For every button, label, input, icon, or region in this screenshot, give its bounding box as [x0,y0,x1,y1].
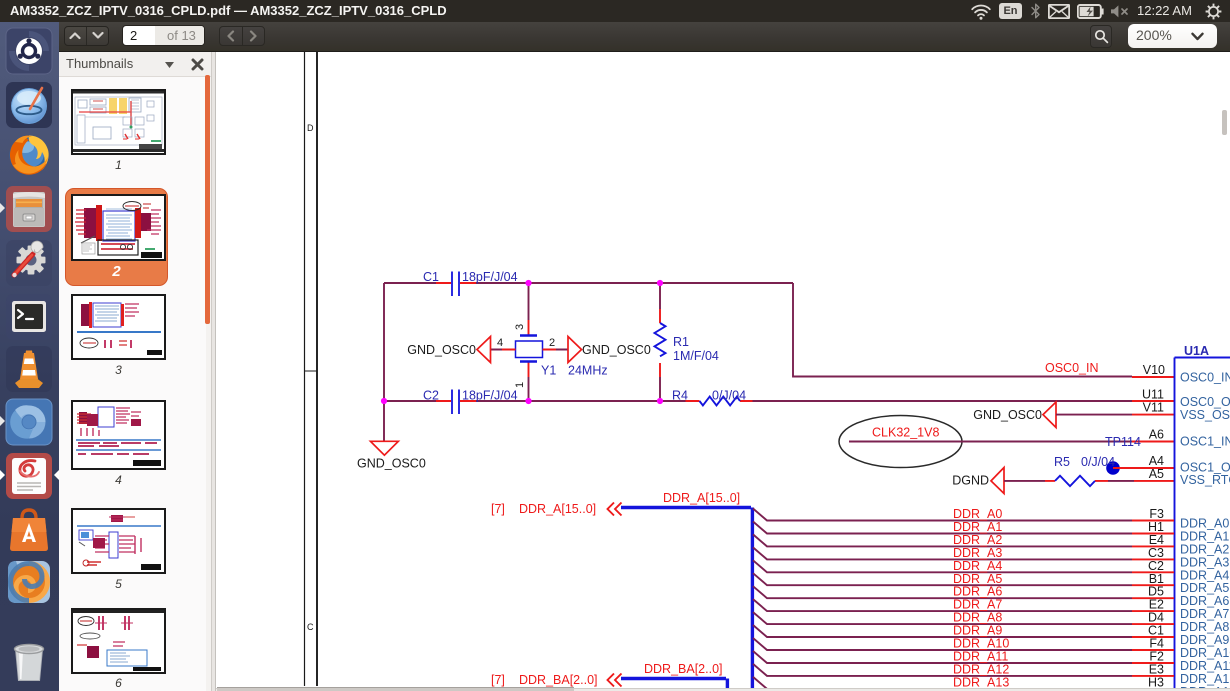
svg-text:F2: F2 [1149,650,1164,664]
wire DDR_A5 branch from bus [753,573,1132,585]
svg-text:[7]: [7] [491,502,505,516]
thumbnail 6 [71,608,166,674]
svg-text:U1A: U1A [1184,344,1209,358]
svg-text:CLK32_1V8: CLK32_1V8 [872,426,939,440]
svg-text:VSS_OSC0: VSS_OSC0 [1180,408,1230,422]
pin D4 DDR_A8 stub [1132,623,1174,625]
zoom dropdown [1128,24,1217,48]
pin H3 DDR_A13 stub [1132,688,1174,690]
thumbnail 2 (selected) [65,188,168,286]
svg-text:C: C [307,622,314,632]
tray: wifi [969,3,993,20]
capacitor C1 [423,270,518,296]
wire DDR_A6 branch from bus [753,586,1132,598]
svg-text:1M/F/04: 1M/F/04 [673,349,719,363]
tray: muted speaker [1110,5,1130,18]
thumbnail 1 [71,89,166,155]
svg-text:DDR_A9: DDR_A9 [1180,633,1229,647]
pin C3 DDR_A3 stub [1132,558,1174,560]
launcher: arrows evince (running+focused) [0,470,5,480]
svg-text:DDR_A6: DDR_A6 [953,585,1002,599]
svg-text:18pF/J/04: 18pF/J/04 [462,389,518,403]
svg-text:DDR_A12: DDR_A12 [1180,672,1230,686]
pin F2 DDR_A11 stub [1132,662,1174,664]
tray: keyboard layout En [999,3,1022,19]
pin F3 DDR_A0 stub [1132,520,1174,522]
wire DDR_A4 branch from bus [753,560,1132,572]
main schematic canvas [216,52,1230,691]
svg-text:DDR_A1: DDR_A1 [1180,530,1229,544]
capacitor C2 [423,389,518,415]
top panel [0,0,1230,22]
wire bottom net OSC0B [384,400,1132,402]
wire DDR_A10 branch from bus [753,638,1132,650]
bus entry chevrons [608,503,622,516]
svg-text:DDR_A10: DDR_A10 [1180,646,1230,660]
svg-text:1: 1 [514,382,526,388]
svg-text:H1: H1 [1148,520,1164,534]
page number entry [122,25,205,46]
wire DDR_A12 branch from bus [753,664,1132,676]
svg-text:E4: E4 [1149,533,1164,547]
svg-text:TP114: TP114 [1105,435,1141,449]
launcher: terminal [5,293,53,341]
svg-text:GND_OSC0: GND_OSC0 [407,343,476,357]
wire DDR_A11 branch from bus [753,651,1132,663]
launcher: swirl app [5,558,53,606]
junction at R1 bottom / R4 [657,398,663,404]
svg-text:V10: V10 [1143,363,1165,377]
main horizontal scrollbar trough [216,688,1230,691]
thumbnail 5 [71,508,166,574]
svg-text:E3: E3 [1149,662,1164,676]
svg-text:DDR_A8: DDR_A8 [1180,620,1229,634]
svg-text:C2: C2 [423,389,439,403]
tray: mail envelope [1048,4,1070,19]
launcher: system settings [5,239,53,287]
bus DDR_BA [621,679,727,691]
search button [1090,25,1112,48]
junction at C2 left / ground branch [381,398,387,404]
svg-text:3: 3 [514,324,526,330]
chip pin names upper [1180,371,1230,488]
svg-text:DDR_A11: DDR_A11 [1180,659,1230,673]
main horizontal scrollbar thumb [217,687,574,691]
junction at R1 top [657,280,663,286]
op chip U1A [1175,344,1230,691]
svg-text:DDR_BA[2..0]: DDR_BA[2..0] [644,662,723,676]
wire DDR_A13 branch from bus [753,677,1132,689]
power symbol GND_OSC0 right of Y1 [568,337,651,363]
svg-text:V11: V11 [1143,401,1164,415]
pin F4 DDR_A10 stub [1132,649,1174,651]
node CLK32_1V8 ellipse [839,416,962,468]
svg-text:E2: E2 [1149,598,1164,612]
pin E3 DDR_A12 stub [1132,675,1174,677]
toolbar [59,22,1230,52]
sheet frame left border [305,52,318,686]
thumbnail 3 [71,294,166,360]
svg-text:B1: B1 [1149,572,1164,586]
launcher: dash home button [5,27,53,75]
bus DDR_A [621,508,752,691]
tray: clock [1137,3,1192,18]
svg-text:DDR_A4: DDR_A4 [1180,568,1229,582]
svg-text:U11: U11 [1142,388,1164,402]
tray: session gear [1205,3,1222,20]
tray: battery [1077,4,1105,19]
svg-text:DDR_A0: DDR_A0 [1180,517,1229,531]
svg-text:DDR_A12: DDR_A12 [953,662,1009,676]
svg-text:DDR_A3: DDR_A3 [953,546,1002,560]
wire DDR_A3 branch from bus [753,547,1132,559]
svg-text:24MHz: 24MHz [568,363,608,377]
tray: bluetooth [1031,3,1041,19]
svg-text:2: 2 [549,337,555,349]
svg-text:D4: D4 [1148,611,1164,625]
svg-text:OSC0_IN: OSC0_IN [1180,371,1230,385]
svg-text:C1: C1 [1148,624,1164,638]
svg-text:DDR_A7: DDR_A7 [1180,607,1229,621]
svg-text:DDR_A2: DDR_A2 [1180,542,1229,556]
svg-text:Y1: Y1 [541,363,556,377]
page up/down buttons [64,26,109,46]
bus label DDR_BA[2..0] left [491,673,598,687]
power symbol GND_OSC0 left of Y1 [407,337,490,363]
launcher: software center [5,506,53,554]
svg-text:DDR_A6: DDR_A6 [1180,594,1229,608]
svg-text:C2: C2 [1148,559,1164,573]
junction at Y1 pin3 / C1 net [525,280,531,286]
svg-text:[7]: [7] [491,673,505,687]
svg-text:GND_OSC0: GND_OSC0 [357,457,426,471]
svg-text:DDR_A2: DDR_A2 [953,533,1002,547]
history back/forward [219,26,265,46]
crystal Y1 [490,283,608,401]
launcher: arrow for cabinet [0,203,5,213]
svg-text:DDR_A3: DDR_A3 [1180,555,1229,569]
svg-text:DDR_A9: DDR_A9 [953,624,1002,638]
svg-text:D5: D5 [1148,585,1164,599]
svg-text:DDR_A5: DDR_A5 [1180,581,1229,595]
wire DDR_A8 branch from bus [753,612,1132,624]
svg-text:GND_OSC0: GND_OSC0 [582,343,651,357]
pin C2 DDR_A4 stub [1132,571,1174,573]
pin D5 DDR_A6 stub [1132,597,1174,599]
svg-text:VSS_RTC: VSS_RTC [1180,473,1230,487]
launcher: file cabinet [5,185,53,233]
launcher: blue orb app [5,81,53,129]
svg-text:0/J/04: 0/J/04 [712,389,746,403]
pin U11 [1132,400,1174,402]
svg-text:DDR_A10: DDR_A10 [953,637,1009,651]
wire DDR_A2 branch from bus [753,534,1132,546]
svg-text:R5: R5 [1054,455,1070,469]
svg-text:A6: A6 [1149,428,1164,442]
resistor R4 [672,389,746,406]
pin B1 DDR_A5 stub [1132,584,1174,586]
thumbnail 4 [71,400,166,470]
svg-text:DDR_A5: DDR_A5 [953,572,1002,586]
svg-text:4: 4 [497,337,503,349]
thumbnails panel [59,52,211,691]
bus label DDR_A[15..0] left [491,502,596,516]
svg-text:C3: C3 [1148,546,1164,560]
panel separator [211,52,216,691]
wire top net OSC0 [384,282,793,284]
pin H1 DDR_A1 stub [1132,533,1174,535]
resistor R5 [1004,455,1174,486]
launcher: vlc [5,345,53,393]
svg-text:DDR_A[15..0]: DDR_A[15..0] [663,491,740,505]
main vertical scrollbar thumb [1222,110,1227,135]
panel scrollbar trough + orange thumb [206,77,211,691]
wire DDR_A0 branch from bus [753,509,1132,521]
svg-text:C1: C1 [423,270,439,284]
svg-text:18pF/J/04: 18pF/J/04 [462,270,518,284]
svg-text:DDR_A4: DDR_A4 [953,559,1002,573]
svg-text:DDR_A7: DDR_A7 [953,598,1002,612]
svg-text:OSC0_IN: OSC0_IN [1045,361,1099,375]
power symbol DGND [952,468,1004,494]
test point TP114 [1105,435,1174,475]
svg-text:DDR_A[15..0]: DDR_A[15..0] [519,502,596,516]
resistor R1 [655,283,719,401]
pin E2 DDR_A7 stub [1132,610,1174,612]
junction at Y1 pin1 / C2 net [525,398,531,404]
svg-text:DDR_BA[2..0]: DDR_BA[2..0] [519,673,598,687]
launcher: trash [5,637,53,685]
pin V10 [1132,376,1174,378]
svg-text:F4: F4 [1149,637,1164,651]
svg-text:DDR_A0: DDR_A0 [953,507,1002,521]
svg-text:DDR_A8: DDR_A8 [953,611,1002,625]
svg-text:0/J/04: 0/J/04 [1081,455,1115,469]
ground GND_OSC0 bottom [357,441,426,470]
svg-text:DGND: DGND [952,474,989,488]
svg-text:A5: A5 [1149,467,1164,481]
svg-text:F3: F3 [1149,507,1164,521]
launcher: evince document viewer [5,452,53,500]
svg-text:OSC0_OUT: OSC0_OUT [1180,395,1230,409]
launcher: firefox [5,131,53,179]
bus entry chevrons BA [608,674,622,687]
svg-text:R1: R1 [673,335,689,349]
pin C1 DDR_A9 stub [1132,636,1174,638]
svg-text:DDR_A11: DDR_A11 [953,650,1008,664]
svg-text:D: D [307,123,314,133]
launcher: chromium [5,398,53,446]
svg-text:OSC1_IN: OSC1_IN [1180,435,1230,449]
wire right corner to OSC0_IN [793,283,1132,377]
svg-text:R4: R4 [672,389,688,403]
power symbol GND_OSC0 at V11 [973,402,1056,428]
wire DDR_A7 branch from bus [753,599,1132,611]
wire left vertical [383,283,385,441]
wire DDR_A9 branch from bus [753,625,1132,637]
pin V11 wire [1056,414,1132,416]
svg-text:DDR_A1: DDR_A1 [953,520,1002,534]
launcher [0,22,59,691]
wire DDR_A1 branch from bus [753,522,1132,534]
svg-text:GND_OSC0: GND_OSC0 [973,408,1042,422]
pin E4 DDR_A2 stub [1132,545,1174,547]
launcher: arrow chromium [0,416,5,426]
wire CLK32 to A6 [849,441,1132,443]
